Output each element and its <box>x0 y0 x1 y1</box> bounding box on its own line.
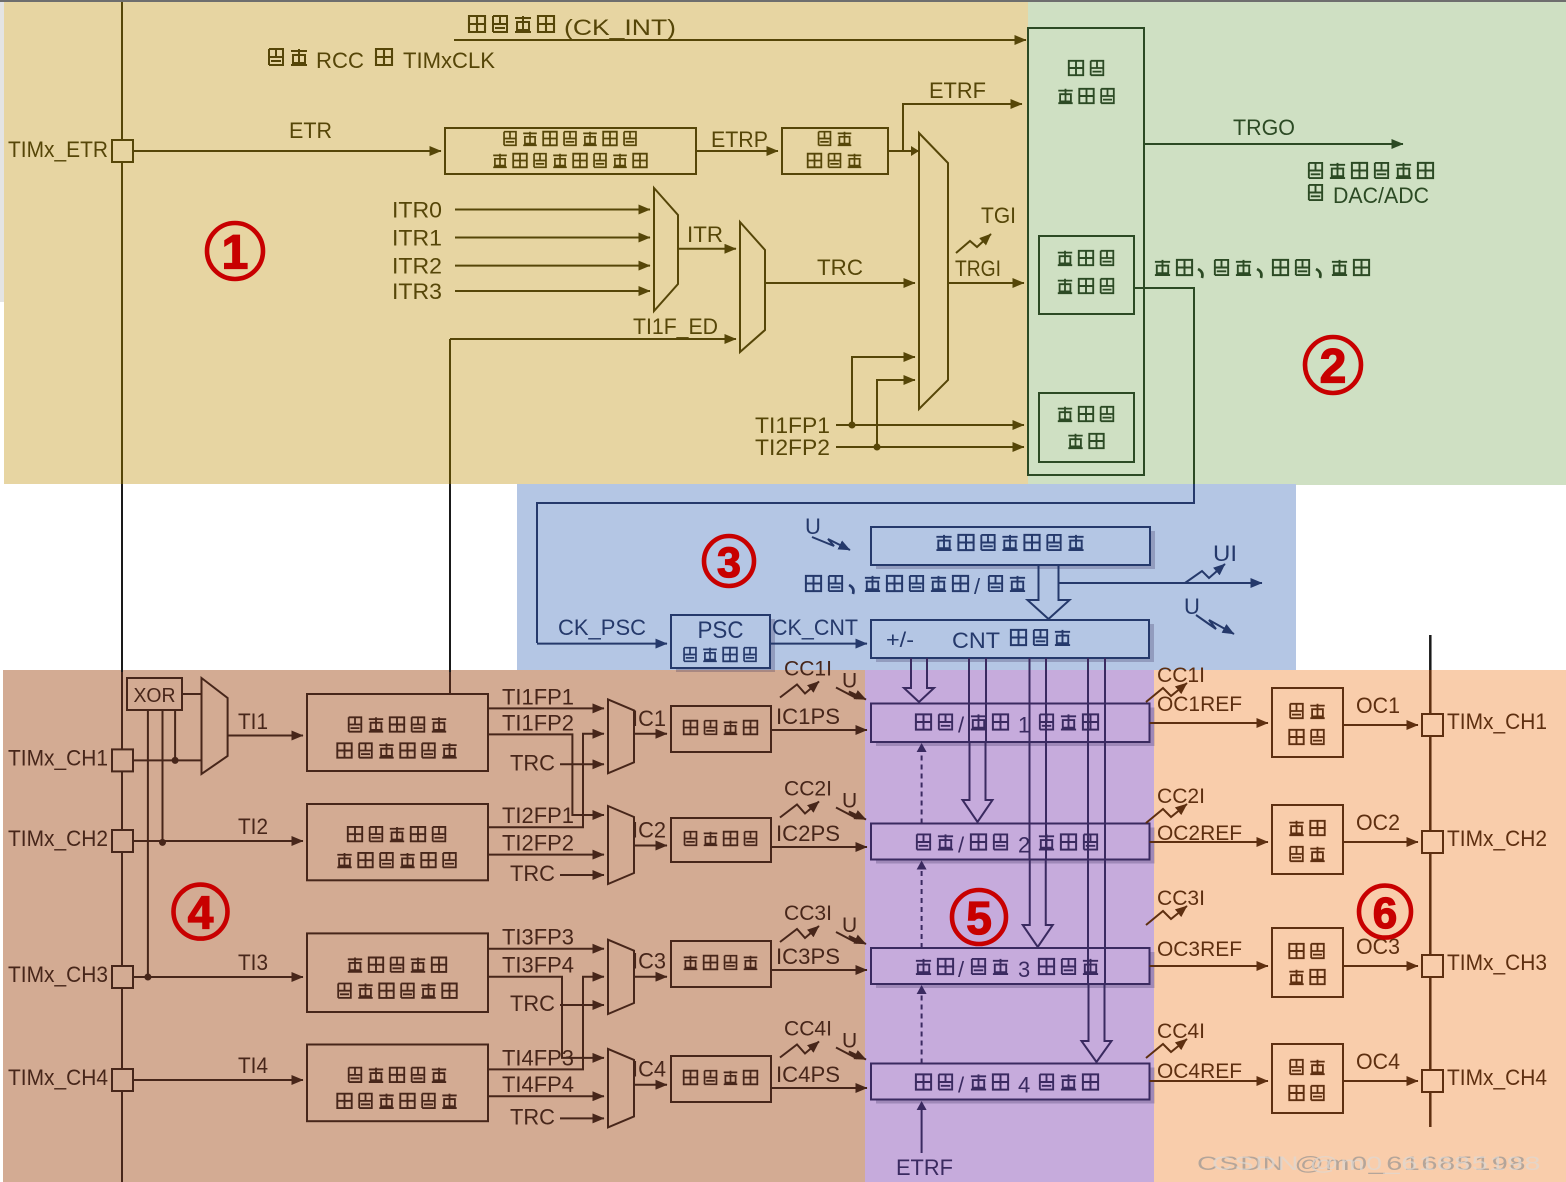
svg-text:/: / <box>958 1073 965 1098</box>
svg-text:TIMxCLK: TIMxCLK <box>403 48 495 73</box>
svg-text:TIMx_CH2: TIMx_CH2 <box>1447 826 1547 851</box>
svg-text:TRGO: TRGO <box>1233 115 1295 140</box>
svg-text:TRC: TRC <box>817 255 863 280</box>
svg-text:IC3: IC3 <box>632 949 666 974</box>
svg-text:CK_PSC: CK_PSC <box>558 615 646 640</box>
svg-text:TI1F_ED: TI1F_ED <box>633 314 718 339</box>
svg-text:U: U <box>842 1030 857 1053</box>
svg-text:TI2FP1: TI2FP1 <box>502 803 574 828</box>
svg-text:TIMx_CH4: TIMx_CH4 <box>1447 1065 1547 1090</box>
svg-text:OC2: OC2 <box>1356 810 1400 835</box>
svg-text:IC3PS: IC3PS <box>776 944 840 969</box>
svg-text:TI1FP2: TI1FP2 <box>502 710 574 735</box>
svg-text:1: 1 <box>222 227 249 280</box>
svg-text:CSDN @m0_61685198: CSDN @m0_61685198 <box>1212 1154 1542 1175</box>
svg-text:TI1FP1: TI1FP1 <box>502 684 574 709</box>
svg-text:ITR0: ITR0 <box>392 198 442 223</box>
svg-text:TI4: TI4 <box>238 1053 268 1078</box>
svg-text:OC1REF: OC1REF <box>1157 693 1242 716</box>
svg-text:IC2PS: IC2PS <box>776 821 840 846</box>
svg-text:OC4REF: OC4REF <box>1157 1060 1242 1083</box>
svg-text:TGI: TGI <box>981 203 1016 228</box>
svg-text:2: 2 <box>1320 341 1347 394</box>
svg-text:DAC/ADC: DAC/ADC <box>1333 183 1429 208</box>
svg-text:TI1: TI1 <box>238 709 268 734</box>
svg-text:TI2FP2: TI2FP2 <box>502 831 574 856</box>
svg-text:TI2FP2: TI2FP2 <box>755 435 830 460</box>
svg-text:5: 5 <box>966 892 992 944</box>
svg-text:ETRF: ETRF <box>929 78 986 103</box>
svg-text:TI3FP3: TI3FP3 <box>502 925 574 950</box>
svg-text:ITR3: ITR3 <box>392 279 442 304</box>
svg-text:U: U <box>842 914 857 937</box>
svg-text:ETRP: ETRP <box>711 127 768 152</box>
svg-text:CC4I: CC4I <box>1157 1020 1205 1043</box>
svg-text:/: / <box>958 957 965 982</box>
svg-text:OC3REF: OC3REF <box>1157 938 1242 961</box>
svg-text:3: 3 <box>1018 957 1030 982</box>
svg-text:TI2: TI2 <box>238 814 268 839</box>
svg-text:4: 4 <box>1018 1073 1030 1098</box>
svg-text:ITR1: ITR1 <box>392 226 442 251</box>
svg-text:CC1I: CC1I <box>1157 664 1205 687</box>
svg-text:CC2I: CC2I <box>784 778 832 801</box>
svg-text:TI4FP4: TI4FP4 <box>502 1072 574 1097</box>
svg-text:U: U <box>842 790 857 813</box>
svg-text:/: / <box>974 574 981 599</box>
svg-text:IC4: IC4 <box>632 1057 666 1082</box>
svg-text:CC4I: CC4I <box>784 1018 832 1041</box>
svg-text:RCC: RCC <box>316 48 364 73</box>
svg-text:CNT: CNT <box>952 628 1000 653</box>
svg-text:PSC: PSC <box>698 617 744 644</box>
svg-text:IC1: IC1 <box>632 706 666 731</box>
svg-text:CC2I: CC2I <box>1157 785 1205 808</box>
svg-text:TIMx_CH1: TIMx_CH1 <box>1447 709 1547 734</box>
svg-text:TIMx_CH3: TIMx_CH3 <box>8 962 108 987</box>
svg-text:TIMx_ETR: TIMx_ETR <box>8 137 108 162</box>
svg-text:IC4PS: IC4PS <box>776 1062 840 1087</box>
svg-text:CC3I: CC3I <box>1157 887 1205 910</box>
svg-text:OC2REF: OC2REF <box>1157 822 1242 845</box>
svg-text:U: U <box>842 670 857 693</box>
svg-text:IC1PS: IC1PS <box>776 704 840 729</box>
svg-text:1: 1 <box>1018 713 1030 738</box>
svg-text:TIMx_CH3: TIMx_CH3 <box>1447 950 1547 975</box>
svg-text:TIMx_CH1: TIMx_CH1 <box>8 745 108 770</box>
svg-text:+/-: +/- <box>886 629 914 652</box>
svg-text:6: 6 <box>1373 889 1397 938</box>
svg-text:TRGI: TRGI <box>955 256 1001 281</box>
svg-text:OC1: OC1 <box>1356 693 1400 718</box>
svg-text:TRC: TRC <box>510 991 555 1016</box>
svg-text:IC2: IC2 <box>632 818 666 843</box>
svg-text:U: U <box>805 514 821 539</box>
svg-text:TIMx_CH2: TIMx_CH2 <box>8 826 108 851</box>
svg-text:TIMx_CH4: TIMx_CH4 <box>8 1065 108 1090</box>
svg-text:ITR2: ITR2 <box>392 254 442 279</box>
svg-text:ETRF: ETRF <box>896 1155 953 1180</box>
svg-text:XOR: XOR <box>134 685 176 707</box>
svg-text:CK_CNT: CK_CNT <box>772 615 858 640</box>
svg-text:CC3I: CC3I <box>784 902 832 925</box>
svg-text:3: 3 <box>717 539 741 587</box>
svg-text:TI3: TI3 <box>238 950 268 975</box>
svg-text:ITR: ITR <box>687 222 723 247</box>
svg-text:TRC: TRC <box>510 861 555 886</box>
svg-text:UI: UI <box>1213 541 1237 566</box>
svg-text:TRC: TRC <box>510 750 555 775</box>
svg-text:4: 4 <box>188 887 214 939</box>
svg-text:/: / <box>958 833 965 858</box>
svg-text:OC4: OC4 <box>1356 1049 1400 1074</box>
svg-text:TI3FP4: TI3FP4 <box>502 953 574 978</box>
svg-text:(CK_INT): (CK_INT) <box>564 15 676 40</box>
svg-text:TRC: TRC <box>510 1104 555 1129</box>
svg-text:2: 2 <box>1018 833 1030 858</box>
svg-text:/: / <box>958 713 965 738</box>
svg-text:ETR: ETR <box>289 118 332 143</box>
svg-text:CC1I: CC1I <box>784 658 832 681</box>
